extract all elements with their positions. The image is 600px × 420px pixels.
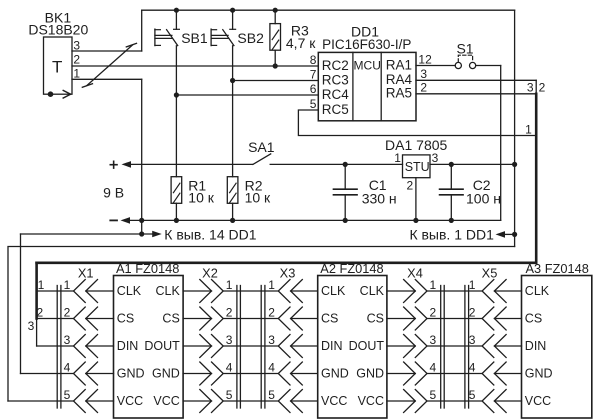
svg-text:1: 1 xyxy=(430,278,437,292)
svg-text:GND: GND xyxy=(525,366,553,380)
svg-text:GND: GND xyxy=(321,366,349,380)
wire A1 to X2 pin 1 xyxy=(183,290,211,292)
wire X3 pin 4 to A2 xyxy=(291,373,318,375)
svg-text:5: 5 xyxy=(226,388,233,402)
svg-text:GND: GND xyxy=(152,366,180,380)
svg-text:1: 1 xyxy=(394,151,401,165)
svg-text:SA1: SA1 xyxy=(248,139,275,155)
svg-text:10 к: 10 к xyxy=(188,190,214,206)
bus tap wire 1 to X1 CLK xyxy=(37,290,74,292)
svg-text:RA1: RA1 xyxy=(386,57,412,72)
svg-text:2: 2 xyxy=(420,81,427,95)
svg-text:5: 5 xyxy=(268,388,275,402)
svg-text:4: 4 xyxy=(268,360,275,374)
svg-text:CLK: CLK xyxy=(360,284,385,298)
wire SB1 lower lead xyxy=(175,46,177,95)
annotation to DD1 pin 1 xyxy=(506,233,515,235)
wire S1 ground vertical xyxy=(500,66,502,221)
svg-text:4,7 к: 4,7 к xyxy=(286,35,316,51)
ground rail xyxy=(130,219,501,221)
wire X2 to X3 pin 4 xyxy=(223,373,278,375)
svg-text:3: 3 xyxy=(469,333,476,347)
svg-text:К выв. 1 DD1: К выв. 1 DD1 xyxy=(409,227,494,243)
svg-text:CLK: CLK xyxy=(117,284,142,298)
wire DA1 pin2 to ground xyxy=(415,178,417,221)
svg-text:VCC: VCC xyxy=(358,394,384,408)
svg-text:PIC16F630-I/P: PIC16F630-I/P xyxy=(322,37,411,52)
svg-text:1: 1 xyxy=(38,278,45,292)
wire SB2 to DD1 pin7 xyxy=(233,80,319,82)
svg-text:3: 3 xyxy=(268,333,275,347)
wire VCC feed to X1 pin5 xyxy=(8,400,74,402)
svg-text:VCC: VCC xyxy=(153,394,179,408)
signal bus thick bottom horizontal xyxy=(37,261,537,264)
svg-text:10 к: 10 к xyxy=(245,190,271,206)
wire BK1 pin1 ground return xyxy=(72,78,142,80)
connector X2 pin 2 xyxy=(200,307,212,330)
svg-text:8: 8 xyxy=(310,53,317,67)
pushbutton SB2 xyxy=(232,10,234,29)
svg-text:VCC: VCC xyxy=(321,394,347,408)
svg-text:2: 2 xyxy=(268,305,275,319)
svg-text:DIN: DIN xyxy=(525,339,547,353)
svg-text:SB2: SB2 xyxy=(237,30,264,46)
connector X4 pin 3 xyxy=(404,335,416,358)
battery minus terminal xyxy=(110,219,117,221)
svg-text:CS: CS xyxy=(117,311,134,325)
VCC feed line to displays xyxy=(8,247,515,402)
svg-text:DS18B20: DS18B20 xyxy=(28,21,88,37)
wire X3 pin 1 to A2 xyxy=(291,290,318,292)
svg-text:S1: S1 xyxy=(456,40,473,56)
pushbutton SB1 xyxy=(175,10,177,29)
svg-text:X1: X1 xyxy=(78,265,94,280)
harness slash across sensor wires xyxy=(87,45,132,85)
junction SB2 on +5V rail xyxy=(230,8,235,13)
ground feed line to displays xyxy=(21,233,153,235)
cable bar X4 xyxy=(440,286,442,409)
svg-text:4: 4 xyxy=(64,360,71,374)
capacitor C2 100n xyxy=(449,162,454,167)
wire A2 to X4 pin 2 xyxy=(387,318,415,320)
connector X4 pin 5 xyxy=(404,390,416,413)
svg-text:STU: STU xyxy=(405,160,430,174)
svg-text:1: 1 xyxy=(525,122,532,136)
svg-text:A2 FZ0148: A2 FZ0148 xyxy=(320,261,383,276)
wire BK1 pin3 to +5V rail riser xyxy=(72,50,142,52)
connector X4 pin 4 xyxy=(404,362,416,385)
wire DD1 pin2 RA5 (signal 2) xyxy=(416,93,536,95)
connector X2 pin 4 xyxy=(200,362,212,385)
svg-text:DOUT: DOUT xyxy=(349,339,385,353)
op IC DD1 PIC16F630 body xyxy=(318,52,416,120)
wire A2 to X4 pin 5 xyxy=(387,400,415,402)
signal bus left vertical thin tail xyxy=(36,319,38,347)
junction SB2 / RC3 net xyxy=(230,78,235,83)
svg-text:A1 FZ0148: A1 FZ0148 xyxy=(116,261,179,276)
display module A1 FZ0148 body xyxy=(114,276,184,419)
resistor R1 10k xyxy=(171,177,182,204)
wire X1 pin 2 to A1 xyxy=(86,318,114,320)
svg-text:VCC: VCC xyxy=(525,394,551,408)
svg-text:CS: CS xyxy=(321,311,338,325)
svg-text:RC4: RC4 xyxy=(322,87,349,102)
wire X1 pin 3 to A1 xyxy=(86,345,114,347)
wire A2 to X4 pin 1 xyxy=(387,290,415,292)
wire X4 to X5 pin 2 xyxy=(427,318,482,320)
wire DQ net BK1 pin2 to DD1 pin8 xyxy=(72,65,318,67)
wire X5 pin 1 to A3 xyxy=(494,290,521,292)
junction DA1 pin2 ground xyxy=(413,218,418,223)
connector X2 pin 3 xyxy=(200,335,212,358)
sensor BK1 DS18B20 body xyxy=(44,37,73,94)
svg-text:RC3: RC3 xyxy=(322,72,349,87)
svg-text:DIN: DIN xyxy=(117,339,139,353)
wire X1 pin 1 to A1 xyxy=(86,290,114,292)
wire A1 to X2 pin 2 xyxy=(183,318,211,320)
svg-text:5: 5 xyxy=(64,388,71,402)
wire GND feed to X1 pin4 xyxy=(21,373,74,375)
signal bus thick right vertical xyxy=(535,94,538,263)
display module A3 FZ0148 body xyxy=(522,276,592,419)
svg-text:3: 3 xyxy=(432,151,439,165)
wire A2 to X4 pin 3 xyxy=(387,345,415,347)
junction SB1 on +5V rail xyxy=(174,8,179,13)
svg-text:5: 5 xyxy=(430,388,437,402)
wire X4 to X5 pin 1 xyxy=(427,290,482,292)
svg-text:330 н: 330 н xyxy=(362,191,397,207)
regulator DA1 7805 body xyxy=(403,155,431,178)
svg-text:7: 7 xyxy=(310,67,317,81)
svg-text:2: 2 xyxy=(226,305,233,319)
wire SB1 to DD1 pin6 xyxy=(176,94,318,96)
wire X2 to X3 pin 1 xyxy=(223,290,278,292)
cable bar X1 xyxy=(56,286,58,409)
svg-text:3: 3 xyxy=(64,333,71,347)
svg-text:1: 1 xyxy=(73,67,80,81)
wire X2 to X3 pin 2 xyxy=(223,318,278,320)
svg-text:4: 4 xyxy=(430,360,437,374)
svg-text:MCU: MCU xyxy=(354,59,381,73)
svg-text:DIN: DIN xyxy=(321,339,343,353)
wire X5 pin 2 to A3 xyxy=(494,318,521,320)
svg-text:2: 2 xyxy=(407,179,414,193)
svg-text:VCC: VCC xyxy=(117,394,143,408)
wire X3 pin 5 to A2 xyxy=(291,400,318,402)
junction ground rail / BK1 gnd xyxy=(139,218,144,223)
connector X2 pin 5 xyxy=(200,390,212,413)
svg-text:2: 2 xyxy=(430,305,437,319)
svg-text:1: 1 xyxy=(469,278,476,292)
wire X1 pin 5 to A1 xyxy=(86,400,114,402)
svg-text:2: 2 xyxy=(64,305,71,319)
wire X3 pin 3 to A2 xyxy=(291,345,318,347)
svg-text:2: 2 xyxy=(469,305,476,319)
switch SA1 xyxy=(253,154,271,165)
wire X2 to X3 pin 3 xyxy=(223,345,278,347)
svg-text:3: 3 xyxy=(73,38,80,52)
svg-text:RA5: RA5 xyxy=(386,85,412,100)
svg-text:2: 2 xyxy=(37,306,44,320)
junction R2 ground xyxy=(230,218,235,223)
connector X4 pin 1 xyxy=(404,280,416,303)
wire DA1 output xyxy=(430,163,515,165)
svg-text:T: T xyxy=(52,57,62,76)
svg-text:CLK: CLK xyxy=(155,284,180,298)
bus tap wire 2 to X1 CS xyxy=(37,318,74,320)
svg-text:2: 2 xyxy=(539,81,546,95)
wire DD1 pin3 RA4 (signal 3) xyxy=(416,79,536,81)
wire A1 to X2 pin 4 xyxy=(183,373,211,375)
wire X5 pin 5 to A3 xyxy=(494,400,521,402)
junction R3 / DQ net xyxy=(273,63,278,68)
wire X5 pin 4 to A3 xyxy=(494,373,521,375)
resistor R3 4.7k pull-up xyxy=(273,8,278,13)
svg-text:5: 5 xyxy=(310,97,317,111)
junction SB1 / RC4 net xyxy=(174,92,179,97)
cable bar X2 xyxy=(236,286,238,409)
svg-text:RC2: RC2 xyxy=(322,58,349,73)
wire +9V rail to SA1 xyxy=(131,163,253,165)
wire +5V right vertical xyxy=(514,10,516,246)
wire X5 pin 3 to A3 xyxy=(494,345,521,347)
junction DA1 output / +5V vertical xyxy=(512,162,517,167)
svg-text:X5: X5 xyxy=(482,265,498,280)
svg-text:X4: X4 xyxy=(407,265,423,280)
svg-text:RC5: RC5 xyxy=(322,102,349,117)
svg-text:GND: GND xyxy=(356,366,384,380)
svg-text:GND: GND xyxy=(117,366,145,380)
bus tap wire 3 to X1 DIN xyxy=(37,345,74,347)
svg-text:1: 1 xyxy=(64,278,71,292)
wire SA1 to DA1 input xyxy=(270,163,402,165)
connector X2 pin 1 xyxy=(200,280,212,303)
svg-text:DOUT: DOUT xyxy=(144,339,180,353)
wire X2 to X3 pin 5 xyxy=(223,400,278,402)
svg-text:5: 5 xyxy=(469,388,476,402)
wire X1 pin 4 to A1 xyxy=(86,373,114,375)
connector X4 pin 2 xyxy=(404,307,416,330)
wire X4 to X5 pin 4 xyxy=(427,373,482,375)
svg-text:CLK: CLK xyxy=(321,284,346,298)
svg-text:3: 3 xyxy=(226,333,233,347)
svg-text:CS: CS xyxy=(162,311,179,325)
svg-text:2: 2 xyxy=(73,53,80,67)
svg-text:CLK: CLK xyxy=(525,284,550,298)
cable bar X3 xyxy=(260,286,262,409)
wire S1 to ground drop xyxy=(476,65,501,67)
wire +5V riser left xyxy=(141,10,143,51)
svg-text:100 н: 100 н xyxy=(466,191,501,207)
BK1 bottom-edge polarity dot and arrow xyxy=(48,91,54,97)
wire X4 to X5 pin 5 xyxy=(427,400,482,402)
svg-text:A3 FZ0148: A3 FZ0148 xyxy=(526,261,589,276)
svg-text:9 В: 9 В xyxy=(103,185,124,201)
svg-text:6: 6 xyxy=(310,82,317,96)
svg-text:4: 4 xyxy=(226,360,233,374)
svg-text:3: 3 xyxy=(430,333,437,347)
junction gnd feed / BK1 gnd xyxy=(139,231,144,236)
svg-text:4: 4 xyxy=(469,360,476,374)
cable bar X5 xyxy=(464,286,466,409)
svg-text:3: 3 xyxy=(420,67,427,81)
resistor R2 10k xyxy=(227,177,238,204)
svg-text:3: 3 xyxy=(28,319,35,333)
svg-text:1: 1 xyxy=(268,278,275,292)
wire DD1 pin12 to switch S1 xyxy=(416,65,455,67)
display module A2 FZ0148 body xyxy=(318,276,387,419)
wire SB2 lower lead xyxy=(232,46,234,81)
capacitor C1 330n xyxy=(343,162,348,167)
signal bus thick left vertical xyxy=(35,263,38,319)
wire A1 to X2 pin 5 xyxy=(183,400,211,402)
svg-text:12: 12 xyxy=(418,52,432,66)
junction R1 ground xyxy=(174,218,179,223)
svg-text:X3: X3 xyxy=(280,265,296,280)
battery plus terminal xyxy=(110,164,117,166)
svg-text:CS: CS xyxy=(525,311,542,325)
wire DD1 pin5 RC5 to bus (signal 1) xyxy=(298,110,536,136)
svg-text:1: 1 xyxy=(226,278,233,292)
svg-text:3: 3 xyxy=(527,81,534,95)
switch S1 xyxy=(455,62,461,68)
wire SB2 junction down to R2 xyxy=(232,81,234,177)
wire X3 pin 2 to A2 xyxy=(291,318,318,320)
junction +5V / DD1 pin1 tap xyxy=(512,232,517,237)
wire X4 to X5 pin 3 xyxy=(427,345,482,347)
wire +5V top rail xyxy=(142,9,515,11)
svg-text:SB1: SB1 xyxy=(181,30,208,46)
wire A2 to X4 pin 4 xyxy=(387,373,415,375)
wire A1 to X2 pin 3 xyxy=(183,345,211,347)
svg-text:X2: X2 xyxy=(202,265,218,280)
wire SB1 junction down to R1 xyxy=(175,95,177,177)
svg-text:К выв. 14 DD1: К выв. 14 DD1 xyxy=(164,227,256,243)
svg-text:CS: CS xyxy=(367,311,384,325)
